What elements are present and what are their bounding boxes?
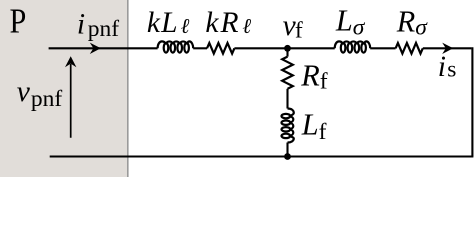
wire top rail left segment	[49, 47, 158, 49]
voltage arrow v_pnf	[70, 64, 72, 138]
svg-text:Rf: Rf	[300, 58, 328, 94]
node v_f dot	[284, 45, 291, 52]
wire branch mid stub	[286, 89, 288, 109]
wire branch top stub	[286, 48, 288, 56]
resistor kR_l	[207, 43, 234, 54]
node bottom dot	[284, 153, 291, 160]
shaded region right border	[127, 0, 129, 177]
svg-text:is: is	[438, 51, 457, 83]
inductor kL_l	[158, 41, 194, 48]
wire right vertical	[471, 47, 473, 156]
inductor L_sigma	[335, 41, 371, 48]
resistor R_f	[282, 57, 293, 89]
svg-text:Rσ: Rσ	[396, 5, 429, 41]
wire bottom rail	[50, 155, 474, 157]
wire	[370, 47, 395, 49]
svg-text:P: P	[10, 2, 27, 41]
inductor L_f	[288, 109, 294, 143]
svg-text:Lf: Lf	[301, 107, 327, 145]
current arrow i_s	[442, 43, 453, 54]
svg-text:kLℓ: kLℓ	[147, 7, 190, 39]
svg-text:Lσ: Lσ	[335, 4, 366, 41]
svg-text:kRℓ: kRℓ	[205, 7, 251, 39]
current arrow i_pnf	[90, 43, 101, 54]
resistor R_sigma	[396, 43, 423, 54]
svg-text:vf: vf	[283, 10, 303, 44]
wire	[234, 47, 334, 49]
wire to right edge	[423, 47, 472, 49]
shaded region P	[0, 0, 127, 177]
wire	[193, 47, 207, 49]
wire branch bottom stub	[286, 143, 288, 157]
